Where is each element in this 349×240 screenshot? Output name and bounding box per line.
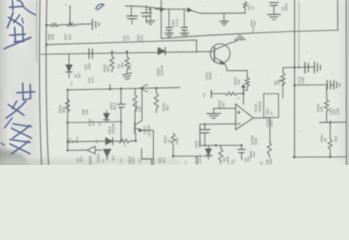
svg-text:1K5: 1K5 bbox=[92, 120, 96, 126]
svg-text:15K: 15K bbox=[277, 79, 281, 85]
svg-text:1N4148: 1N4148 bbox=[112, 123, 116, 134]
svg-text:LM324: LM324 bbox=[258, 101, 262, 112]
svg-text:D9: D9 bbox=[98, 122, 102, 126]
svg-text:4V7: 4V7 bbox=[78, 72, 82, 78]
svg-text:104Z: 104Z bbox=[336, 108, 340, 115]
svg-text:1R04: 1R04 bbox=[285, 3, 289, 11]
svg-text:4V7: 4V7 bbox=[119, 158, 123, 163]
svg-text:1N4148: 1N4148 bbox=[198, 154, 202, 164]
svg-text:104Z: 104Z bbox=[301, 77, 305, 84]
svg-text:154J: 154J bbox=[88, 63, 92, 70]
svg-text:43A: 43A bbox=[69, 81, 73, 86]
svg-text:+5: +5 bbox=[63, 3, 67, 7]
svg-text:D1: D1 bbox=[101, 159, 105, 163]
svg-text:47K: 47K bbox=[237, 78, 241, 85]
svg-text:10: 10 bbox=[269, 111, 273, 115]
svg-text:10K: 10K bbox=[138, 106, 142, 112]
svg-text:1N4148: 1N4148 bbox=[160, 65, 164, 76]
svg-text:10: 10 bbox=[183, 160, 187, 164]
svg-text:1K2: 1K2 bbox=[222, 102, 226, 108]
svg-text:E1: E1 bbox=[148, 133, 152, 137]
svg-text:33K2: 33K2 bbox=[128, 63, 132, 70]
svg-text:1N: 1N bbox=[95, 140, 99, 144]
svg-text:2K2: 2K2 bbox=[80, 156, 84, 162]
svg-text:3K3: 3K3 bbox=[120, 62, 124, 68]
svg-text:22uF: 22uF bbox=[131, 157, 135, 164]
svg-text:140K: 140K bbox=[175, 137, 179, 145]
svg-text:104J: 104J bbox=[198, 141, 202, 148]
svg-text:47K: 47K bbox=[320, 105, 324, 112]
svg-text:1K2: 1K2 bbox=[68, 34, 72, 40]
svg-text:420K: 420K bbox=[254, 137, 258, 145]
svg-text:471J: 471J bbox=[113, 103, 117, 110]
svg-text:K1: K1 bbox=[123, 143, 127, 147]
svg-text:330K: 330K bbox=[269, 157, 273, 165]
svg-text:104: 104 bbox=[126, 36, 130, 41]
svg-text:C90: C90 bbox=[138, 158, 142, 164]
svg-text:3K0: 3K0 bbox=[106, 66, 110, 72]
svg-text:32: 32 bbox=[260, 161, 264, 165]
svg-text:C1808: C1808 bbox=[147, 125, 151, 134]
svg-text:ZD902: ZD902 bbox=[88, 156, 92, 165]
svg-text:4V7: 4V7 bbox=[111, 155, 115, 161]
svg-text:3K8: 3K8 bbox=[334, 136, 338, 142]
svg-text:C945: C945 bbox=[209, 72, 213, 80]
svg-text:2K2: 2K2 bbox=[162, 157, 166, 163]
svg-text:3K3: 3K3 bbox=[165, 105, 169, 111]
svg-text:100u: 100u bbox=[140, 35, 144, 42]
svg-text:ZD901: ZD901 bbox=[96, 154, 100, 163]
svg-text:3K1E: 3K1E bbox=[75, 136, 79, 143]
svg-text:4.7u: 4.7u bbox=[91, 77, 95, 83]
svg-text:10K: 10K bbox=[85, 109, 89, 115]
svg-text:104.16: 104.16 bbox=[175, 18, 179, 27]
svg-text:10E: 10E bbox=[51, 33, 55, 40]
